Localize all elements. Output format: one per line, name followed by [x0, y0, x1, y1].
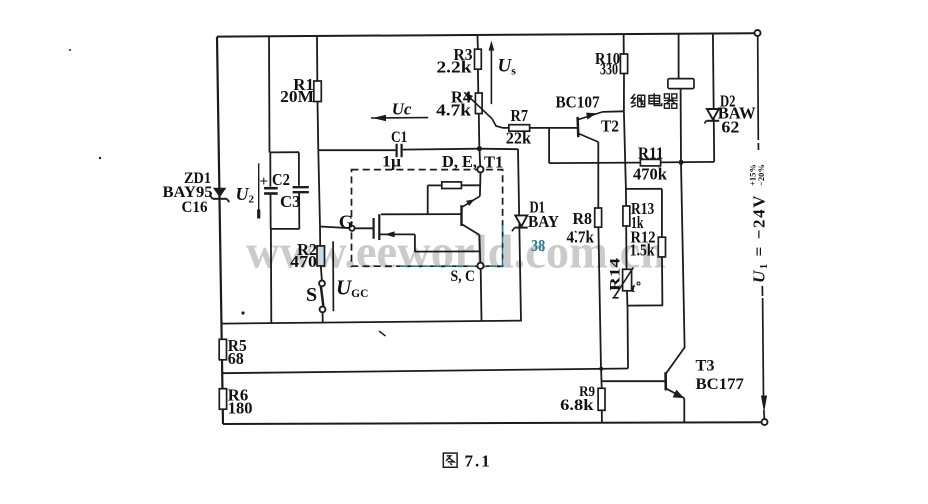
- svg-text:R8: R8: [573, 209, 593, 228]
- svg-text:D, E,: D, E,: [442, 152, 477, 171]
- svg-text:t: t: [632, 280, 636, 295]
- svg-text:4.7k: 4.7k: [436, 100, 472, 119]
- svg-text:R14: R14: [608, 257, 624, 291]
- svg-text:BAY: BAY: [528, 212, 559, 231]
- svg-text:T3: T3: [696, 358, 715, 375]
- svg-text:2.2k: 2.2k: [437, 57, 473, 76]
- svg-text:BC107: BC107: [556, 93, 601, 112]
- svg-text:T1: T1: [484, 153, 503, 172]
- svg-text:U1 = −24V: U1 = −24V: [750, 194, 771, 283]
- svg-text:R11: R11: [638, 143, 664, 162]
- svg-text:1µ: 1µ: [382, 154, 401, 171]
- svg-text:38: 38: [531, 236, 545, 255]
- svg-text:C16: C16: [182, 199, 208, 216]
- svg-text:C2: C2: [272, 170, 290, 189]
- svg-text:C1: C1: [391, 129, 407, 146]
- svg-text:22k: 22k: [506, 129, 532, 148]
- svg-text:S, C: S, C: [451, 268, 476, 285]
- svg-text:62: 62: [721, 118, 739, 137]
- svg-text:+: +: [260, 174, 269, 190]
- svg-text:C3: C3: [280, 192, 301, 211]
- svg-text:68: 68: [228, 349, 244, 368]
- svg-text:R7: R7: [511, 106, 529, 125]
- svg-text:S: S: [306, 284, 317, 306]
- svg-text:6.8k: 6.8k: [560, 397, 593, 414]
- svg-text:G: G: [339, 212, 354, 233]
- svg-text:470k: 470k: [633, 165, 667, 184]
- svg-text:470: 470: [290, 252, 317, 271]
- svg-text:330: 330: [600, 60, 618, 79]
- svg-text:7.1: 7.1: [465, 452, 492, 471]
- svg-text:4.7k: 4.7k: [567, 227, 595, 246]
- svg-text:Uc: Uc: [392, 100, 412, 119]
- svg-text:T2: T2: [601, 117, 619, 136]
- svg-text:−20%: −20%: [756, 164, 766, 186]
- svg-text:1.5k: 1.5k: [630, 241, 655, 260]
- svg-text:BC177: BC177: [696, 376, 744, 393]
- svg-text:20M: 20M: [280, 87, 314, 106]
- svg-text:180: 180: [228, 398, 253, 417]
